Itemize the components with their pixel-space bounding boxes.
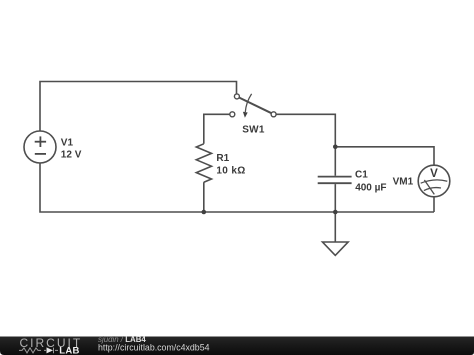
- svg-text:10 kΩ: 10 kΩ: [216, 166, 245, 177]
- svg-text:VM1: VM1: [393, 177, 414, 188]
- svg-text:SW1: SW1: [242, 125, 265, 136]
- svg-text:R1: R1: [216, 153, 229, 164]
- svg-text:LAB: LAB: [59, 346, 79, 355]
- svg-text:C1: C1: [355, 170, 368, 181]
- svg-text:V1: V1: [61, 138, 74, 149]
- svg-text:12 V: 12 V: [61, 150, 82, 161]
- svg-text:400 µF: 400 µF: [355, 182, 386, 193]
- svg-text:V: V: [430, 168, 438, 180]
- svg-text:http://circuitlab.com/c4xdb54: http://circuitlab.com/c4xdb54: [98, 342, 210, 352]
